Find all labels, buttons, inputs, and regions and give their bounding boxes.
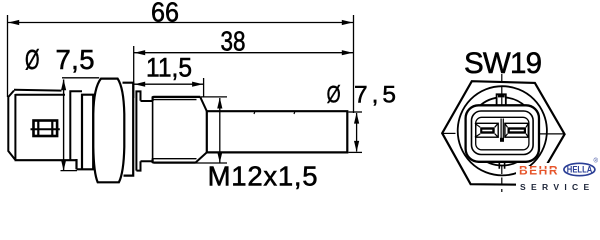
svg-text:7,5: 7,5 [354, 82, 396, 109]
dimension 66 line [8, 22, 354, 24]
svg-text:7,5: 7,5 [56, 44, 95, 75]
dimension 7,5 left vertical line [63, 80, 65, 171]
end view inner circle [468, 97, 536, 165]
svg-text:SW19: SW19 [464, 47, 542, 80]
M12 arrow up [217, 98, 222, 109]
terminal window mid line [31, 128, 60, 130]
dimension 7,5 right bottom extension line [349, 151, 363, 153]
hex nut centre facet [93, 79, 124, 183]
terminal window frame [34, 121, 58, 137]
dimension 11,5 line [134, 83, 204, 85]
dimension 7,5 right top extension line [349, 111, 363, 113]
end view middle divider lines [501, 119, 503, 139]
logo HELLA ellipse [564, 163, 595, 175]
M12 thread top extension line [200, 96, 227, 98]
ring between hex and thread [136, 91, 140, 170]
end view top tab dark bar [498, 94, 505, 98]
dimension 11,5 extension line right [203, 78, 205, 97]
connector body left side face [8, 91, 15, 160]
logo white background [516, 163, 600, 196]
dimension 7,5 left top extension line [62, 77, 99, 79]
end view terminal deck outline [476, 117, 529, 150]
svg-text:38: 38 [221, 25, 246, 56]
terminal window divider right [51, 121, 53, 136]
dimension 66 arrow right [342, 20, 353, 25]
dimension 66 arrow left [8, 20, 19, 25]
probe surface tick marks [254, 111, 295, 114]
dimension 66 extension line right [353, 15, 355, 113]
dimension 66 extension line left [7, 15, 9, 97]
M12 thread bottom extension line [196, 162, 228, 164]
connector body bottom edge [15, 159, 77, 161]
dimension 7,5 left bottom extension line [61, 170, 78, 172]
dimension 38 arrow right [342, 50, 353, 55]
connector body step to washer [75, 159, 77, 169]
svg-text:SERVICE: SERVICE [520, 183, 595, 192]
connector body front left edge [14, 94, 16, 160]
dimension 38 line [134, 52, 354, 54]
end view vertical centerline [501, 74, 503, 192]
thread left edge [152, 98, 154, 163]
logo BEHR stencil line [519, 168, 558, 170]
connector body back top edge [14, 89, 62, 92]
svg-text:HELLA: HELLA [567, 165, 593, 175]
end view right terminal [505, 123, 529, 137]
thread section outline [153, 97, 201, 163]
dimension 11,5 arrow left [134, 82, 145, 87]
thread root line bottom [153, 158, 196, 160]
hex nut right facet [123, 83, 134, 176]
end view top tab [497, 94, 506, 106]
svg-text:Ø: Ø [327, 82, 341, 109]
dimension diameter 7,5 left label [25, 44, 95, 75]
svg-text:Ø: Ø [25, 44, 40, 75]
svg-text:M12x1,5: M12x1,5 [208, 161, 318, 192]
M12 leader vertical line [219, 98, 221, 163]
terminal window divider left [37, 121, 39, 136]
svg-text:66: 66 [151, 0, 179, 27]
end view outer circle [458, 86, 547, 175]
connector body front top edge [15, 94, 65, 96]
svg-text:11,5: 11,5 [146, 53, 192, 83]
washer flange [77, 95, 94, 170]
thread chamfer top [200, 97, 207, 111]
dimension 38 arrow left [134, 50, 145, 55]
end view horizontal centerline left [442, 132, 456, 134]
end view tab centerline segment [501, 97, 503, 106]
probe tube [207, 111, 347, 152]
o-ring between body and washer [70, 91, 82, 160]
dimension 7,5 right vertical line [356, 113, 358, 152]
thread root line top [153, 99, 196, 101]
dimension diameter 7,5 right label [327, 82, 396, 109]
dimension 7,5 left arrow down [61, 160, 66, 171]
dimension 38 extension line left [133, 46, 135, 98]
thread chamfer bottom [196, 152, 207, 162]
dimension 11,5 arrow right [192, 82, 203, 87]
end view left terminal [475, 123, 498, 137]
end view middle dark square [500, 138, 504, 142]
dimension 7,5 right arrow up [354, 113, 359, 124]
end view bottom tab [499, 162, 504, 169]
shank between ring and thread [141, 101, 153, 161]
dimension 7,5 right arrow down [354, 141, 359, 152]
end view connector housing inner [472, 111, 534, 155]
end view hexagon [442, 81, 564, 185]
end view horizontal centerline right [533, 133, 565, 135]
dimension 7,5 left arrow up [61, 79, 66, 90]
svg-text:®: ® [594, 158, 599, 165]
svg-text:BEHR: BEHR [519, 163, 558, 177]
M12 arrow down [217, 152, 222, 163]
end view connector housing outer [466, 105, 539, 162]
